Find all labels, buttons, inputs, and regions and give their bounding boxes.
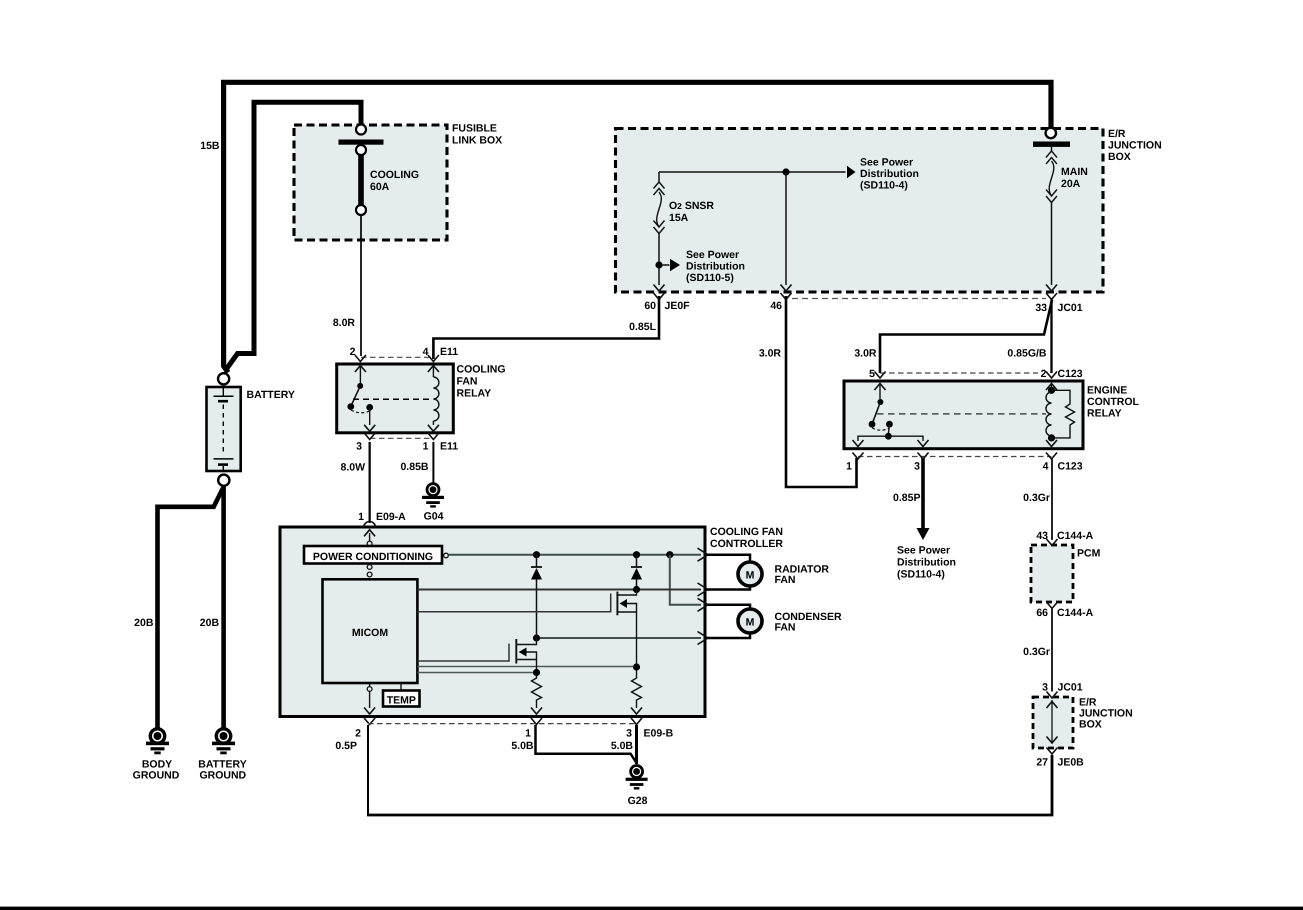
svg-text:C144-A: C144-A [1057,530,1094,542]
svg-text:G04: G04 [424,511,444,523]
svg-text:2: 2 [350,346,356,358]
svg-text:O2 SNSR: O2 SNSR [669,200,714,212]
svg-text:8.0W: 8.0W [340,462,365,474]
svg-text:E11: E11 [440,346,458,358]
svg-text:E/R: E/R [1108,128,1126,140]
svg-text:27: 27 [1036,757,1048,769]
svg-text:MICOM: MICOM [352,627,388,639]
svg-text:20B: 20B [134,617,154,629]
svg-text:FAN: FAN [775,621,796,633]
svg-text:GROUND: GROUND [133,770,180,782]
svg-text:(SD110-4): (SD110-4) [897,569,945,581]
svg-text:46: 46 [770,300,782,312]
svg-text:See Power: See Power [686,249,739,261]
svg-text:RELAY: RELAY [457,388,492,400]
svg-text:E09-A: E09-A [376,511,406,523]
svg-text:3: 3 [626,728,632,740]
svg-text:CONTROLLER: CONTROLLER [710,538,783,550]
svg-text:0.3Gr: 0.3Gr [1023,492,1050,504]
svg-text:4: 4 [423,346,429,358]
svg-text:BATTERY: BATTERY [247,389,295,401]
svg-text:POWER CONDITIONING: POWER CONDITIONING [313,551,433,563]
svg-text:60: 60 [644,300,656,312]
svg-text:3: 3 [914,461,920,473]
svg-text:JE0F: JE0F [665,300,691,312]
svg-text:2: 2 [1041,368,1047,380]
svg-text:M: M [746,570,755,582]
svg-text:(SD110-5): (SD110-5) [686,272,734,284]
svg-text:4: 4 [1043,461,1049,473]
svg-text:15B: 15B [200,140,220,152]
svg-text:C123: C123 [1058,461,1083,473]
svg-text:PCM: PCM [1077,548,1101,560]
svg-text:Distribution: Distribution [860,168,919,180]
svg-text:JC01: JC01 [1058,302,1083,314]
svg-text:3.0R: 3.0R [854,348,877,360]
svg-text:JE0B: JE0B [1058,757,1085,769]
svg-text:0.85B: 0.85B [400,461,428,473]
svg-text:1: 1 [423,441,429,453]
svg-text:0.85P: 0.85P [893,492,920,504]
svg-text:2: 2 [355,728,361,740]
svg-text:LINK BOX: LINK BOX [452,135,502,147]
svg-text:COOLING: COOLING [370,169,419,181]
svg-text:(SD110-4): (SD110-4) [860,180,908,192]
svg-text:FUSIBLE: FUSIBLE [452,123,497,135]
svg-text:20B: 20B [200,617,220,629]
svg-text:FAN: FAN [457,376,478,388]
svg-text:15A: 15A [669,212,689,224]
svg-text:1: 1 [525,728,531,740]
svg-text:JC01: JC01 [1058,682,1083,694]
svg-text:43: 43 [1036,530,1048,542]
svg-text:3: 3 [356,441,362,453]
svg-text:G28: G28 [628,795,648,807]
svg-text:E09-B: E09-B [644,728,674,740]
svg-text:Distribution: Distribution [686,261,745,273]
svg-text:M: M [746,617,755,629]
svg-text:BOX: BOX [1108,151,1131,163]
svg-text:3.0R: 3.0R [759,348,782,360]
svg-text:RELAY: RELAY [1087,408,1122,420]
svg-text:5.0B: 5.0B [611,740,634,752]
svg-text:5: 5 [869,368,875,380]
svg-text:C144-A: C144-A [1057,607,1094,619]
svg-text:TEMP: TEMP [387,695,416,707]
svg-text:0.3Gr: 0.3Gr [1023,646,1050,658]
svg-text:See Power: See Power [897,545,950,557]
svg-text:FAN: FAN [775,574,796,586]
svg-text:33: 33 [1035,302,1047,314]
svg-text:66: 66 [1036,607,1048,619]
svg-text:0.85L: 0.85L [629,321,656,333]
svg-text:E11: E11 [440,441,458,453]
svg-text:C123: C123 [1058,368,1083,380]
svg-text:CONTROL: CONTROL [1087,396,1139,408]
svg-text:0.85G/B: 0.85G/B [1007,348,1047,360]
svg-text:BOX: BOX [1079,719,1102,731]
svg-text:60A: 60A [370,181,390,193]
svg-text:See Power: See Power [860,157,913,169]
svg-text:0.5P: 0.5P [335,740,357,752]
svg-text:8.0R: 8.0R [333,317,356,329]
svg-text:COOLING: COOLING [457,364,506,376]
svg-text:ENGINE: ENGINE [1087,385,1127,397]
svg-text:1: 1 [358,511,364,523]
svg-text:MAIN: MAIN [1061,166,1088,178]
svg-text:JUNCTION: JUNCTION [1108,140,1162,152]
svg-text:5.0B: 5.0B [511,740,534,752]
svg-text:COOLING FAN: COOLING FAN [710,526,783,538]
svg-text:20A: 20A [1061,178,1081,190]
svg-text:GROUND: GROUND [199,770,246,782]
svg-text:1: 1 [846,461,852,473]
svg-text:Distribution: Distribution [897,557,956,569]
